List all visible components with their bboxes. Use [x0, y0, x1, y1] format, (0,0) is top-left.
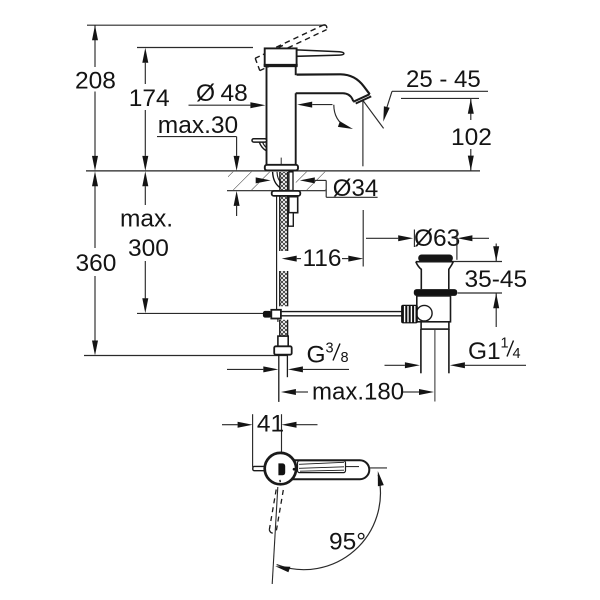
25-45 second reference line [401, 97, 479, 99]
dimension 208 arrows [92, 25, 98, 171]
svg-text:Ø63: Ø63 [414, 225, 460, 252]
dashed handle rotated [269, 490, 283, 534]
G3/8 connector tube [278, 355, 280, 402]
dimension G 3/8 arrows [263, 366, 303, 372]
dimension Ø48 left arrow [250, 102, 265, 108]
svg-text:Ø: Ø [196, 80, 215, 107]
aerator swivel arc arrow [338, 121, 353, 129]
rod stub below clamp [277, 319, 279, 322]
faucet cap bottom band [264, 64, 298, 67]
horizontal linkage bar [281, 311, 402, 313]
dimension 360 line [94, 186, 96, 341]
pop-up pull knob on body [252, 139, 267, 142]
dimension max.30 leader [157, 137, 237, 156]
drain pivot nut knurled [401, 305, 418, 324]
countertop surface line [86, 170, 480, 172]
drain neck left [416, 262, 422, 289]
dimension Ø63 leaders [366, 230, 489, 260]
drain centerline [434, 330, 436, 402]
95 degree arc [277, 475, 381, 570]
hose end collar [278, 336, 288, 346]
svg-text:41: 41 [257, 411, 284, 438]
mounting nut [289, 197, 298, 213]
dimension Ø48 right leader [312, 104, 332, 106]
aerator tip face [353, 94, 370, 102]
aerator vertical reference line [362, 101, 364, 166]
svg-text:max.180: max.180 [312, 379, 404, 406]
dimension 360 arrows [92, 171, 98, 355]
dimension 35-45 arrows [493, 246, 499, 308]
body centerline [280, 158, 282, 171]
dimension Ø48 left leader [189, 104, 251, 106]
25-45 leader arrow [383, 106, 389, 121]
braided hose segment C [280, 320, 288, 336]
top view handle inner detail [298, 461, 346, 473]
braided hose segment A [280, 196, 288, 251]
dimension 174 line [144, 63, 146, 156]
braided hose through-hole section [280, 172, 288, 191]
drain seal ring [414, 289, 457, 296]
0 degree reference line [369, 467, 387, 469]
svg-text:Ø34: Ø34 [333, 175, 378, 202]
threaded rod below nut [288, 213, 293, 227]
drain plug dome cap [418, 255, 453, 262]
dimension max.180 leaders [296, 391, 419, 393]
svg-text:3: 3 [326, 340, 334, 356]
drain collar [421, 322, 449, 329]
svg-text:300: 300 [128, 235, 169, 262]
top view handle capsule [284, 460, 369, 479]
dimension Ø34 leader [315, 180, 378, 197]
faucet body right edge lower [295, 93, 297, 165]
max.300 bottom reference line [137, 312, 263, 314]
360 bottom reference line [84, 355, 287, 357]
dimension 41 arrows [238, 422, 297, 428]
drain ball joint [417, 305, 433, 321]
95 degree arc top arrow [378, 471, 384, 486]
svg-text:35-45: 35-45 [465, 266, 528, 293]
dimension 35-45 lines [450, 244, 503, 328]
svg-text:max.30: max.30 [158, 112, 238, 139]
hose curve in hole [273, 172, 280, 188]
countertop underside line [227, 190, 326, 192]
top view bottom tick [279, 480, 281, 482]
dimension max.300 line [144, 186, 146, 298]
countertop hatch right section [296, 172, 326, 190]
svg-text:208: 208 [75, 68, 116, 95]
svg-text:4: 4 [513, 346, 521, 362]
dimension 41 extension lines [252, 414, 254, 467]
svg-text:1: 1 [501, 336, 509, 352]
top view lever cross-section D [278, 463, 285, 475]
svg-text:95°: 95° [329, 529, 366, 556]
dimension 102 arrows [468, 99, 474, 171]
svg-text:8: 8 [341, 350, 349, 366]
faucet body left edge [266, 66, 268, 165]
drain neck right [449, 262, 454, 289]
svg-text:max.: max. [120, 206, 173, 233]
svg-text:48: 48 [221, 80, 248, 107]
drain tailpipe [420, 329, 422, 373]
spout bottom edge [296, 93, 354, 101]
dimension Ø63 arrows [398, 235, 472, 241]
svg-text:25 - 45: 25 - 45 [406, 66, 481, 93]
aerator swivel arc [334, 105, 347, 128]
faucet body right edge upper [295, 66, 297, 75]
95 degree arc bottom arrow [275, 566, 290, 572]
dimension max.180 arrows [281, 389, 434, 395]
svg-text:116: 116 [303, 245, 342, 272]
25-45 shelf line [392, 90, 488, 92]
faucet dashed raised lever [276, 25, 327, 52]
dimension Ø34 white box [326, 172, 378, 205]
dimension max.30 lower arrow [234, 191, 240, 206]
top view body circle [265, 453, 296, 484]
top reference line (lever top, 208/360 datum) [87, 24, 326, 26]
dimension max.300 arrows [142, 171, 148, 313]
countertop hatch left section [228, 172, 270, 190]
svg-text:174: 174 [129, 85, 170, 112]
faucet solid lever [297, 50, 344, 56]
cap-top reference line (174 datum) [137, 47, 253, 49]
faucet dashed tilted cap [255, 45, 287, 70]
svg-text:G: G [307, 342, 326, 369]
dimension 41 leaders [222, 424, 238, 426]
shank tube in hole [289, 172, 293, 191]
dimension 116 extension line [362, 210, 364, 267]
dimension 116 arrows [282, 256, 364, 262]
top view pull knob stub [253, 466, 266, 470]
braided hose segment B [280, 271, 288, 306]
pop-up lift rod [276, 196, 278, 311]
drain flange top line [416, 261, 454, 263]
hose end nut [274, 346, 292, 354]
dimension 208 line [94, 25, 96, 156]
lift rod clamp black part [263, 311, 271, 318]
dimension G 3/8 leaders [227, 368, 349, 370]
drain locknut body [417, 296, 451, 322]
aerator diagonal reference line [363, 101, 383, 129]
faucet cap [265, 48, 297, 66]
25-45 curved leader [386, 91, 392, 109]
dimension Ø34 arrows [256, 177, 315, 183]
svg-text:360: 360 [76, 250, 117, 277]
95 degree reference line [272, 487, 278, 584]
mounting washer under counter [272, 191, 301, 196]
dimension Ø48 right arrow [297, 102, 312, 108]
dimension 116 leaders [297, 258, 301, 260]
dimension max.30 arrow [234, 156, 240, 171]
top view index dot [293, 468, 296, 471]
dimension 102 line [470, 98, 472, 170]
spout top edge [297, 74, 370, 94]
escutcheon base plate [265, 165, 298, 171]
dimension G1 1/4 arrows [405, 362, 465, 368]
dimension 174 arrows [142, 48, 148, 171]
svg-text:102: 102 [451, 124, 492, 151]
lift rod clamp white block [271, 310, 281, 319]
svg-text:G1: G1 [468, 338, 501, 365]
dimension G1 1/4 leaders [385, 364, 527, 366]
